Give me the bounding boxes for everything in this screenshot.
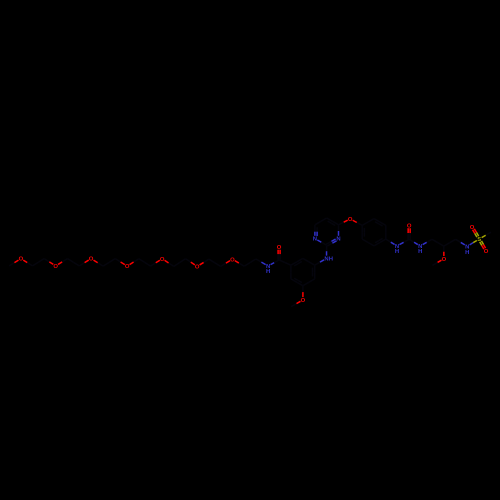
svg-text:H: H [465,250,469,256]
svg-text:H: H [329,256,333,262]
svg-text:O: O [348,217,353,223]
svg-text:O: O [442,257,447,263]
svg-text:N: N [313,237,317,243]
svg-text:O: O [277,245,282,251]
svg-text:O: O [230,257,235,263]
svg-text:O: O [19,257,24,263]
svg-text:H: H [266,269,270,275]
svg-text:O: O [53,264,58,270]
svg-text:H: H [418,249,422,255]
svg-text:H: H [395,249,399,255]
svg-text:S: S [477,237,481,243]
svg-text:O: O [160,257,165,263]
svg-text:O: O [301,298,306,304]
svg-text:O: O [407,223,412,229]
svg-text:O: O [470,225,475,231]
svg-text:O: O [484,249,489,255]
svg-text:O: O [89,257,94,263]
svg-text:O: O [125,264,130,270]
svg-text:N: N [336,237,340,243]
svg-text:O: O [195,264,200,270]
